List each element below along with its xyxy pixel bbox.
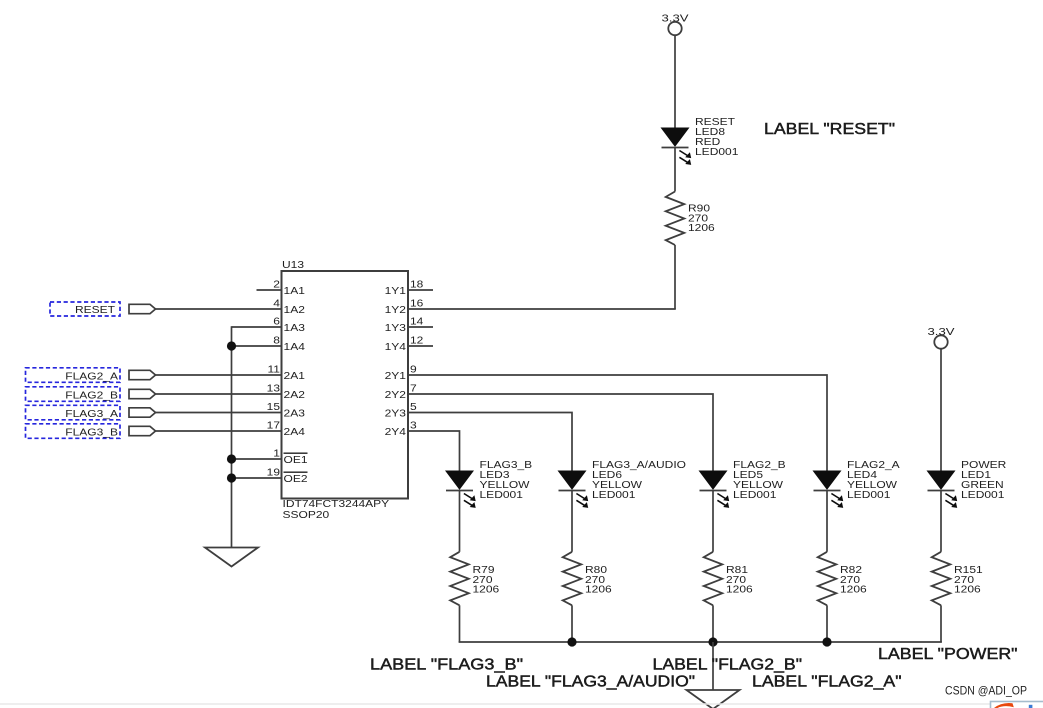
pin 7 (2Y2) xyxy=(385,384,418,402)
wire RESET to 1A2 xyxy=(156,308,282,310)
svg-text:LABEL "FLAG3_B": LABEL "FLAG3_B" xyxy=(370,657,523,674)
svg-text:LED001: LED001 xyxy=(847,490,891,501)
port FLAG2_B symbol xyxy=(129,389,156,398)
wire LED8 cathode to R90 xyxy=(674,148,676,192)
wire ground bus xyxy=(459,641,942,643)
corner logo dot xyxy=(1029,705,1033,708)
pin 12 (1Y4) xyxy=(385,336,424,354)
svg-text:FLAG2_B: FLAG2_B xyxy=(65,391,118,402)
wire 2Y2 net xyxy=(408,394,713,471)
port RESET symbol xyxy=(129,304,156,313)
resistor R81 xyxy=(704,552,723,606)
wire OE2 to rail xyxy=(232,477,282,479)
port FLAG3_A symbol xyxy=(129,408,156,417)
svg-text:2A1: 2A1 xyxy=(284,371,306,382)
page bottom edge xyxy=(0,703,990,705)
svg-text:1206: 1206 xyxy=(585,584,612,595)
junction bus/LED4 xyxy=(822,637,831,646)
wire FLAG3_A to pin xyxy=(156,412,282,414)
wire R151 to ground bus xyxy=(940,605,942,642)
port FLAG2_A symbol xyxy=(129,370,156,379)
svg-text:1A1: 1A1 xyxy=(284,286,306,297)
label LED1 xyxy=(961,460,1006,501)
svg-text:2A3: 2A3 xyxy=(284,409,306,420)
pin 14 (1Y3) xyxy=(385,317,424,335)
svg-text:3.3V: 3.3V xyxy=(928,327,955,338)
wire LED5 cathode to resistor xyxy=(712,491,714,552)
svg-text:8: 8 xyxy=(273,336,280,347)
pin 1 (OE1) xyxy=(273,449,308,467)
wire R79 to ground bus xyxy=(459,605,461,642)
label LED3 xyxy=(480,460,533,501)
svg-text:13: 13 xyxy=(267,384,281,395)
wire FLAG2_B to pin xyxy=(156,393,282,395)
resistor R90 xyxy=(666,192,685,246)
label R81 xyxy=(726,565,753,595)
wire 2Y3 net xyxy=(408,413,572,472)
wire OE1 to rail xyxy=(232,458,282,460)
pin 15 (2A3) xyxy=(267,402,306,420)
LED LED5 (YELLOW) xyxy=(700,471,727,489)
svg-text:FLAG2_A: FLAG2_A xyxy=(65,372,118,383)
svg-text:2Y4: 2Y4 xyxy=(385,427,407,438)
IC U13 body xyxy=(282,271,409,499)
wire LED4 cathode to resistor xyxy=(826,491,828,552)
svg-text:LABEL "POWER": LABEL "POWER" xyxy=(878,646,1018,663)
svg-text:RESET: RESET xyxy=(75,305,115,316)
LED LED4 (YELLOW) xyxy=(814,471,841,489)
label R90 xyxy=(688,204,715,235)
label R151 xyxy=(954,565,983,595)
pin 5 (2Y3) xyxy=(385,402,418,420)
LED LED1 (GREEN) xyxy=(928,471,955,489)
wire ground rail vertical xyxy=(231,326,233,547)
svg-text:1206: 1206 xyxy=(688,223,715,234)
svg-text:2Y1: 2Y1 xyxy=(385,371,407,382)
svg-text:OE1: OE1 xyxy=(284,455,309,466)
junction at OE1 xyxy=(227,454,236,463)
label LED4 xyxy=(847,460,900,501)
wire FLAG2_A to pin xyxy=(156,374,282,376)
svg-text:LED001: LED001 xyxy=(480,490,524,501)
corner logo box xyxy=(991,702,1043,708)
svg-text:5: 5 xyxy=(410,402,417,413)
pin 13 (2A2) xyxy=(267,384,306,402)
wire pin 2 stub xyxy=(257,289,282,291)
svg-text:9: 9 xyxy=(410,365,417,376)
junction bus/LED5 xyxy=(708,637,717,646)
svg-text:LABEL "FLAG2_A": LABEL "FLAG2_A" xyxy=(752,674,902,691)
svg-text:16: 16 xyxy=(410,299,424,310)
corner logo swoosh xyxy=(994,703,1014,708)
svg-text:11: 11 xyxy=(268,365,281,376)
svg-text:FLAG3_B: FLAG3_B xyxy=(65,428,118,439)
svg-text:2Y3: 2Y3 xyxy=(385,409,407,420)
svg-text:7: 7 xyxy=(410,384,417,395)
svg-text:LABEL "FLAG2_B": LABEL "FLAG2_B" xyxy=(653,657,803,674)
svg-text:1Y2: 1Y2 xyxy=(385,305,407,316)
pin 4 (1A2) xyxy=(273,299,305,317)
pin 3 (2Y4) xyxy=(385,421,418,439)
wire pin 18 stub xyxy=(408,289,433,291)
wire bus to ground xyxy=(712,642,714,690)
ground (U13 enables) xyxy=(205,548,258,567)
ground (LED return) xyxy=(687,690,740,708)
svg-text:1: 1 xyxy=(273,449,280,460)
wire LED1 cathode to resistor xyxy=(940,491,942,552)
svg-text:3.3V: 3.3V xyxy=(662,14,689,25)
svg-text:U13: U13 xyxy=(282,260,305,271)
svg-text:15: 15 xyxy=(267,402,281,413)
pin 19 (OE2) xyxy=(267,468,308,486)
wire R81 to ground bus xyxy=(712,605,714,642)
svg-text:2A2: 2A2 xyxy=(284,390,306,401)
svg-text:1Y4: 1Y4 xyxy=(385,342,407,353)
label R79 xyxy=(473,565,500,595)
port FLAG2_B dashed box xyxy=(26,387,121,402)
pin 16 (1Y2) xyxy=(385,299,424,317)
svg-text:OE2: OE2 xyxy=(284,474,309,485)
resistor R82 xyxy=(818,552,837,606)
wire pin 12 stub xyxy=(408,345,433,347)
svg-text:1Y3: 1Y3 xyxy=(385,323,407,334)
port FLAG2_A dashed box xyxy=(26,368,121,383)
junction at OE2 xyxy=(227,473,236,482)
label LED8 xyxy=(695,117,739,158)
junction at 1A4 xyxy=(227,341,236,350)
LED LED6 (YELLOW) xyxy=(559,471,586,489)
wire 2Y4 net xyxy=(408,431,460,471)
pin 11 (2A1) xyxy=(268,365,306,383)
wire LED3 cathode to resistor xyxy=(459,491,461,552)
svg-text:1A3: 1A3 xyxy=(284,323,306,334)
resistor R79 xyxy=(450,552,469,606)
svg-text:2A4: 2A4 xyxy=(284,427,306,438)
label R80 xyxy=(585,565,612,595)
svg-text:1206: 1206 xyxy=(473,584,500,595)
svg-text:LED001: LED001 xyxy=(733,490,777,501)
svg-text:1A2: 1A2 xyxy=(284,305,306,316)
wire 3.3V to LED1 xyxy=(940,349,942,471)
pin 9 (2Y1) xyxy=(385,365,418,383)
svg-text:1206: 1206 xyxy=(840,584,867,595)
LED LED8 (RED) xyxy=(662,128,689,146)
svg-text:2Y2: 2Y2 xyxy=(385,390,407,401)
svg-text:6: 6 xyxy=(273,317,280,328)
wire R90 to 1Y2 net xyxy=(674,245,676,309)
wire FLAG3_B to pin xyxy=(156,430,282,432)
pin 2 (1A1) xyxy=(273,280,305,298)
wire 1A4 to rail xyxy=(232,345,282,347)
svg-text:LED001: LED001 xyxy=(961,490,1005,501)
pin 8 (1A4) xyxy=(273,336,305,354)
LED LED3 (YELLOW) xyxy=(446,471,473,489)
svg-text:1Y1: 1Y1 xyxy=(385,286,407,297)
svg-text:SSOP20: SSOP20 xyxy=(283,510,330,521)
wire 3.3V to LED8 anode xyxy=(674,35,676,128)
svg-text:3: 3 xyxy=(410,421,417,432)
port FLAG3_A dashed box xyxy=(26,405,121,420)
port FLAG3_B symbol xyxy=(129,426,156,435)
svg-text:1206: 1206 xyxy=(726,584,753,595)
label LED5 xyxy=(733,460,786,501)
port FLAG3_B dashed box xyxy=(26,424,121,439)
port RESET dashed box xyxy=(50,302,120,316)
svg-text:18: 18 xyxy=(410,280,424,291)
svg-text:LABEL "RESET": LABEL "RESET" xyxy=(764,121,895,138)
wire R80 to ground bus xyxy=(571,605,573,642)
svg-text:FLAG3_A: FLAG3_A xyxy=(65,409,118,420)
svg-text:4: 4 xyxy=(273,299,280,310)
wire 1A3 to rail xyxy=(232,326,282,328)
label LED6 xyxy=(592,460,686,501)
wire pin 14 stub xyxy=(408,326,433,328)
svg-text:1A4: 1A4 xyxy=(284,342,306,353)
svg-text:1206: 1206 xyxy=(954,584,981,595)
junction bus/LED6 xyxy=(567,637,576,646)
label R82 xyxy=(840,565,867,595)
resistor R151 xyxy=(932,552,951,606)
svg-text:LED001: LED001 xyxy=(592,490,636,501)
svg-text:2: 2 xyxy=(273,280,280,291)
svg-text:19: 19 xyxy=(267,468,281,479)
svg-text:14: 14 xyxy=(410,317,424,328)
pin 6 (1A3) xyxy=(273,317,305,335)
wire R82 to ground bus xyxy=(826,605,828,642)
svg-text:LABEL "FLAG3_A/AUDIO": LABEL "FLAG3_A/AUDIO" xyxy=(486,674,695,691)
svg-text:12: 12 xyxy=(410,336,424,347)
svg-text:CSDN @ADI_OP: CSDN @ADI_OP xyxy=(945,684,1027,698)
svg-text:IDT74FCT3244APY: IDT74FCT3244APY xyxy=(283,499,390,510)
pin 17 (2A4) xyxy=(267,421,306,439)
wire 2Y1 net xyxy=(408,375,827,471)
svg-text:LED001: LED001 xyxy=(695,147,739,158)
wire LED6 cathode to resistor xyxy=(571,491,573,552)
svg-text:17: 17 xyxy=(267,421,281,432)
resistor R80 xyxy=(563,552,582,606)
wire 1Y2 to R90 column xyxy=(408,308,676,310)
pin 18 (1Y1) xyxy=(385,280,424,298)
